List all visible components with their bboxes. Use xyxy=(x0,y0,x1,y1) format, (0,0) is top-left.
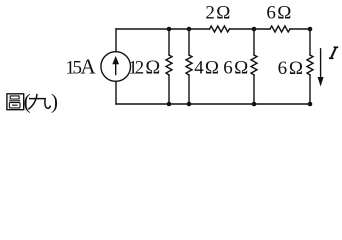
node dot bottom 3 xyxy=(252,102,257,107)
svg-text:6Ω: 6Ω xyxy=(278,58,305,79)
resistor R1 12ohm xyxy=(166,55,172,75)
svg-text:(: ( xyxy=(24,89,31,113)
wire top: node A to node D xyxy=(116,28,210,30)
current I arrow line xyxy=(320,49,322,79)
wire branch 6ohm mid top xyxy=(253,29,255,55)
node dot bottom right corner xyxy=(308,102,313,107)
wire branch 4ohm bottom xyxy=(188,75,190,104)
resistor R3 4ohm xyxy=(186,55,192,75)
node dot bottom 1 xyxy=(167,102,172,107)
svg-text:6Ω: 6Ω xyxy=(223,57,249,78)
node dot top right corner xyxy=(308,27,313,32)
node dot bottom 2 xyxy=(187,102,192,107)
svg-text:4Ω: 4Ω xyxy=(194,57,220,78)
label current I xyxy=(329,47,338,58)
node dot top 3 xyxy=(252,27,257,32)
wire left bottom xyxy=(115,81,117,104)
wire branch 6ohm right bottom xyxy=(309,75,311,104)
current I arrowhead xyxy=(318,77,324,87)
wire top mid xyxy=(230,28,271,30)
wire branch 6ohm mid bottom xyxy=(253,75,255,104)
svg-text:): ) xyxy=(51,89,58,113)
current source I1 circle xyxy=(101,52,131,82)
svg-text:15A: 15A xyxy=(65,54,96,78)
current source arrowhead xyxy=(112,56,119,64)
wire branch 4ohm top xyxy=(188,29,190,55)
caption figure nine: glyph jiu (nine) xyxy=(28,94,50,110)
resistor R2 2ohm xyxy=(210,26,230,32)
wire bottom xyxy=(116,103,310,105)
node dot top 2 xyxy=(187,27,192,32)
svg-text:6Ω: 6Ω xyxy=(266,3,292,24)
svg-text:12Ω: 12Ω xyxy=(128,56,160,78)
resistor R4 6ohm mid xyxy=(251,55,257,75)
caption figure nine: glyph tu (picture) xyxy=(7,94,24,110)
current source arrow xyxy=(115,64,117,75)
resistor R6 6ohm right xyxy=(307,55,313,75)
wire branch 12ohm bottom xyxy=(168,75,170,104)
wire branch 12ohm top xyxy=(168,29,170,55)
node dot top 1 xyxy=(167,27,172,32)
resistor R5 6ohm top xyxy=(270,26,290,32)
wire left top xyxy=(115,29,117,52)
wire branch 6ohm right top xyxy=(309,29,311,55)
svg-text:2Ω: 2Ω xyxy=(205,3,231,24)
wire top right xyxy=(290,28,310,30)
